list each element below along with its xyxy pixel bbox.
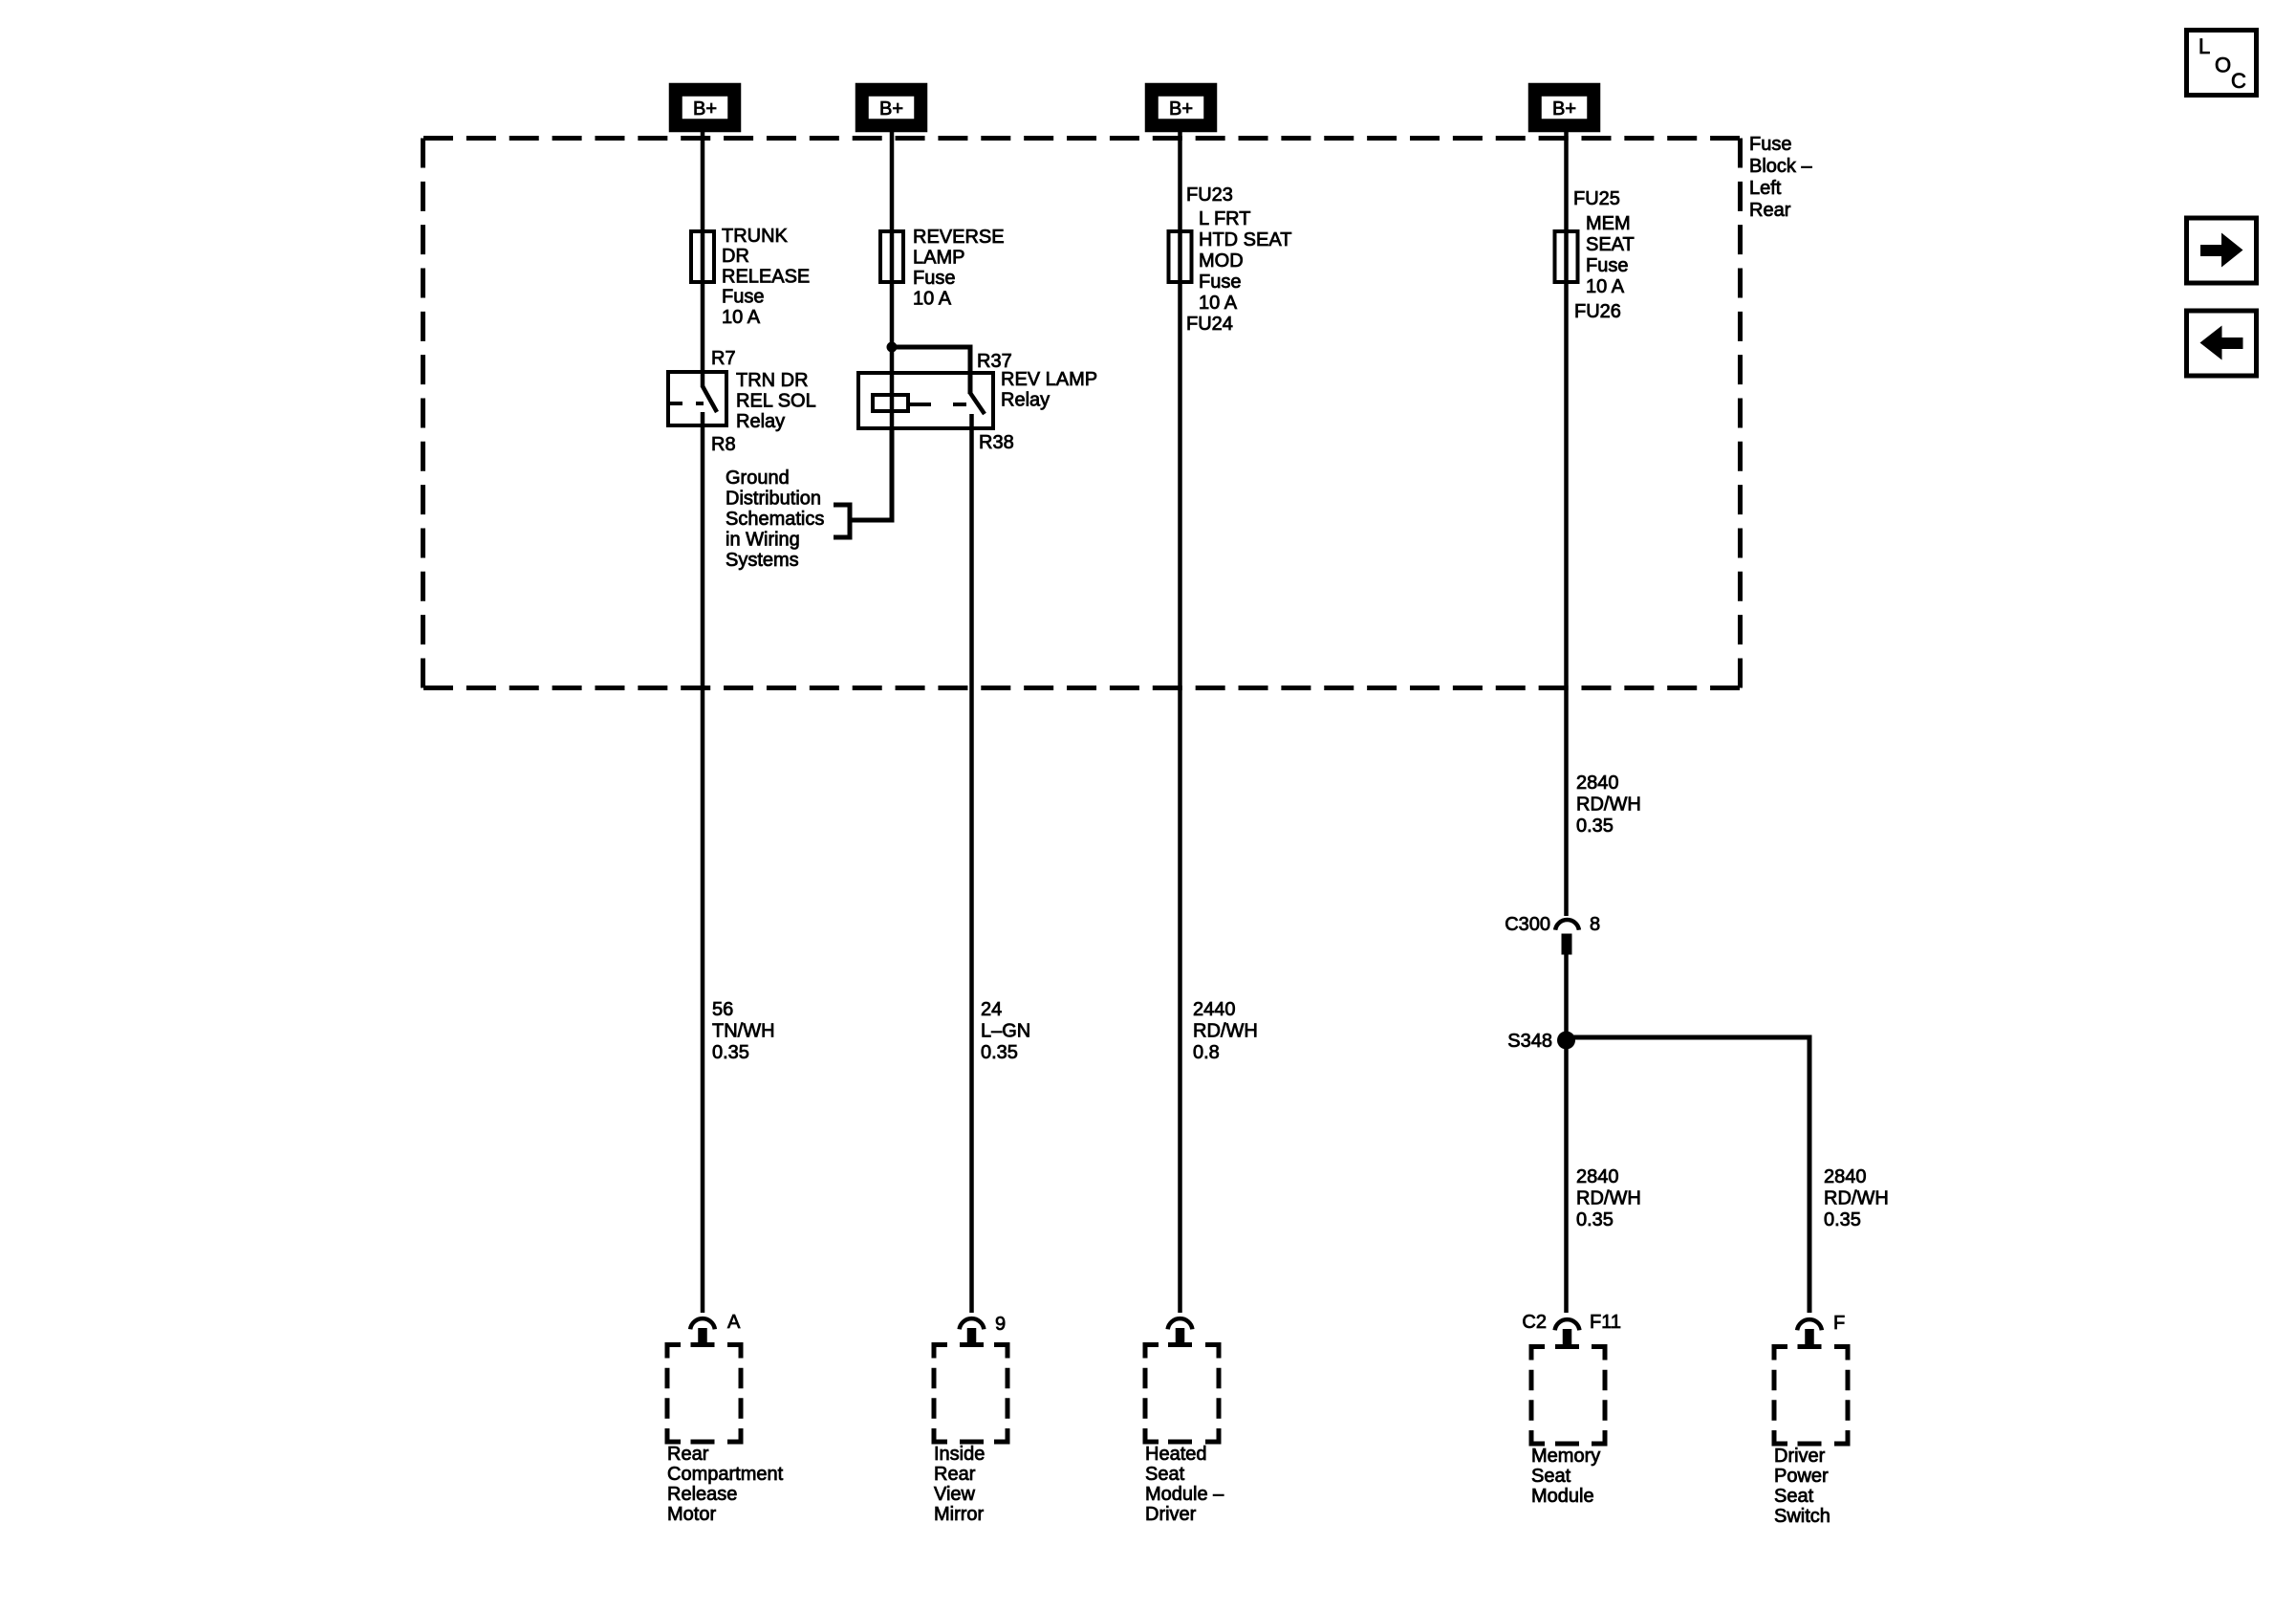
svg-text:Module –: Module – [1145,1484,1224,1505]
memory seat module label [1531,1446,1600,1507]
inside rear view mirror label [934,1444,985,1525]
ground distribution pointer bracket [834,505,850,537]
relay U2 switch blade [970,393,985,414]
svg-text:2840: 2840 [1576,773,1619,794]
fuse L FRT HTD SEAT MOD label [1199,208,1291,314]
connector pin stub 5 [1805,1329,1814,1345]
connector arc C2 F11 (memory seat module) [1555,1319,1580,1330]
svg-text:LAMP: LAMP [913,248,964,269]
heated seat module label [1145,1444,1224,1525]
fuse L FRT HTD SEAT MOD [1169,231,1192,282]
fuse TRUNK DR RELEASE label [722,226,810,328]
wire W2 relay R38 to connector 9 [969,414,974,1313]
svg-text:HTD SEAT: HTD SEAT [1199,229,1291,250]
svg-text:Seat: Seat [1774,1486,1814,1507]
svg-text:Driver: Driver [1145,1504,1197,1525]
component box rear compartment release motor [667,1345,741,1443]
svg-text:Mirror: Mirror [934,1504,985,1525]
svg-text:Seat: Seat [1531,1466,1571,1487]
svg-text:Ground: Ground [726,468,790,489]
svg-text:10 A: 10 A [722,307,761,328]
svg-text:Module: Module [1531,1486,1594,1507]
fuse REVERSE LAMP [880,231,903,282]
svg-text:RD/WH: RD/WH [1576,1188,1641,1209]
svg-text:C: C [2231,69,2246,93]
svg-text:Block –: Block – [1749,156,1812,177]
connector pin stub 4 [1563,1329,1572,1345]
relay U2 linkage dashes [910,403,966,406]
svg-text:0.35: 0.35 [981,1042,1018,1063]
svg-text:Compartment: Compartment [667,1464,784,1485]
wire W1 B+ to relay R7 [701,130,705,387]
svg-text:C300: C300 [1505,914,1550,935]
svg-text:2840: 2840 [1576,1166,1619,1187]
pin label FU25 [1573,188,1620,209]
power feed B+ terminal 4 [1530,85,1598,130]
legend forward arrow box [2187,218,2257,283]
svg-text:FU24: FU24 [1186,314,1233,335]
svg-text:Fuse: Fuse [722,287,764,308]
svg-text:0.8: 0.8 [1193,1042,1220,1063]
connector pin stub 2 [967,1328,977,1343]
component box driver power seat switch [1774,1347,1848,1445]
svg-text:RELEASE: RELEASE [722,266,810,287]
legend LOC box [2187,31,2257,96]
svg-text:F: F [1833,1313,1845,1334]
wire W2 coil to ground-distribution pointer [852,430,892,520]
svg-text:2840: 2840 [1824,1166,1867,1187]
svg-text:Fuse: Fuse [1586,255,1628,276]
svg-text:S348: S348 [1507,1031,1552,1052]
svg-text:B+: B+ [1552,98,1576,120]
fuse block dashed outline [423,139,1741,688]
svg-text:TRUNK: TRUNK [722,226,789,247]
wire W1 circuit label 56 TN/WH 0.35 [712,999,775,1063]
wire W4 C300 to splice S348 [1564,954,1569,1037]
svg-text:0.35: 0.35 [1576,816,1614,837]
svg-text:Rear: Rear [934,1464,976,1485]
svg-text:L–GN: L–GN [981,1021,1030,1042]
svg-text:REL SOL: REL SOL [736,391,816,412]
svg-text:10 A: 10 A [1199,293,1238,314]
wire W5 S348 branch to driver power seat switch [1567,1037,1810,1313]
fuse TRUNK DR RELEASE [691,231,714,282]
wire W4 branch label 2840 RD/WH 0.35 [1576,1166,1641,1230]
wire W2 branch to relay R37 pivot [892,347,970,394]
svg-text:R7: R7 [711,348,736,369]
power feed B+ terminal 3 [1147,85,1215,130]
svg-text:REVERSE: REVERSE [913,227,1005,248]
wire W4 S348 to memory seat module [1564,1037,1569,1313]
svg-text:0.35: 0.35 [1824,1209,1861,1230]
wire W2 B+ to coil through fuse [890,130,895,430]
svg-text:FU26: FU26 [1574,301,1621,322]
svg-text:Relay: Relay [736,411,785,432]
fuse MEM SEAT [1555,231,1578,282]
svg-text:Fuse: Fuse [1199,272,1241,293]
wire W1 relay R8 to connector A [701,412,705,1313]
connector arc (heated seat module) [1168,1318,1193,1329]
svg-text:DR: DR [722,246,749,267]
wire W2 circuit label 24 L-GN 0.35 [981,999,1030,1063]
svg-text:SEAT: SEAT [1586,234,1635,255]
svg-text:in Wiring: in Wiring [726,530,800,551]
svg-text:Relay: Relay [1001,390,1050,411]
pin label R7 [711,348,736,369]
svg-text:A: A [727,1312,741,1333]
component box inside rear view mirror [934,1345,1007,1443]
svg-text:MOD: MOD [1199,250,1244,272]
svg-text:R38: R38 [979,432,1014,453]
svg-text:24: 24 [981,999,1002,1020]
connector C300 pin stub [1562,934,1572,955]
svg-text:L FRT: L FRT [1199,208,1250,229]
svg-text:Switch: Switch [1774,1506,1830,1527]
relay U1 label [736,370,816,432]
wire W3 B+ to heated seat module [1178,130,1182,1313]
svg-text:FU23: FU23 [1186,185,1233,206]
pin label FU26 [1574,301,1621,322]
fuse MEM SEAT label [1586,213,1635,297]
svg-text:F11: F11 [1590,1312,1621,1333]
svg-text:REV LAMP: REV LAMP [1001,369,1097,390]
svg-text:Inside: Inside [934,1444,985,1465]
svg-text:Power: Power [1774,1466,1829,1487]
wire W5 branch label 2840 RD/WH 0.35 [1824,1166,1889,1230]
svg-text:8: 8 [1590,914,1600,935]
connector arc pin F (driver power seat switch) [1797,1319,1822,1330]
svg-text:B+: B+ [1169,98,1193,120]
svg-text:0.35: 0.35 [1576,1209,1614,1230]
svg-text:TRN DR: TRN DR [736,370,809,391]
wire W4 B+ to connector C300 [1564,130,1569,916]
svg-text:Rear: Rear [667,1444,709,1465]
connector arc pin 9 (inside rear view mirror) [960,1318,985,1329]
svg-text:Release: Release [667,1484,737,1505]
pin label R37 [977,351,1012,372]
svg-text:View: View [934,1484,976,1505]
svg-text:RD/WH: RD/WH [1193,1021,1258,1042]
svg-text:Left: Left [1749,178,1782,199]
pin label FU24 [1186,314,1233,335]
power feed B+ terminal 1 [671,85,739,130]
svg-text:B+: B+ [693,98,717,120]
splice S348 node [1557,1032,1575,1050]
svg-text:O: O [2215,54,2231,77]
svg-text:9: 9 [995,1314,1006,1335]
connector pin stub 3 [1176,1328,1185,1343]
svg-text:Fuse: Fuse [1749,134,1791,155]
svg-text:Fuse: Fuse [913,268,955,289]
relay U1 TRN DR REL SOL box [668,372,726,425]
connector arc pin A (rear compartment release motor) [690,1318,715,1329]
svg-text:FU25: FU25 [1573,188,1620,209]
svg-text:B+: B+ [879,98,903,120]
ground distribution note [726,468,824,571]
svg-text:10 A: 10 A [1586,276,1625,297]
wire W4 circuit label 2840 RD/WH 0.35 [1576,773,1641,837]
svg-text:Systems: Systems [726,550,799,571]
svg-text:Memory: Memory [1531,1446,1600,1467]
wire W3 circuit label 2440 RD/WH 0.8 [1193,999,1258,1063]
svg-text:2440: 2440 [1193,999,1236,1020]
svg-text:Schematics: Schematics [726,509,824,530]
relay U2 coil [873,395,908,411]
svg-text:10 A: 10 A [913,289,952,310]
svg-text:L: L [2199,34,2210,58]
relay U2 label [1001,369,1097,411]
connector pin stub 1 [698,1328,707,1343]
svg-text:0.35: 0.35 [712,1042,749,1063]
connector C300 arc [1555,920,1579,930]
svg-text:RD/WH: RD/WH [1576,795,1641,816]
pin label R8 [711,434,736,455]
relay U1 linkage dashes [668,402,704,405]
svg-text:Driver: Driver [1774,1446,1826,1467]
svg-text:R8: R8 [711,434,736,455]
component box heated seat module driver [1145,1345,1219,1443]
svg-text:TN/WH: TN/WH [712,1021,775,1042]
pin label FU23 [1186,185,1233,206]
fuse REVERSE LAMP label [913,227,1005,310]
svg-text:C2: C2 [1522,1312,1547,1333]
svg-text:RD/WH: RD/WH [1824,1188,1889,1209]
svg-text:Heated: Heated [1145,1444,1207,1465]
junction node on wire W2 [887,342,898,353]
svg-text:Motor: Motor [667,1504,716,1525]
legend backward arrow box [2187,311,2257,376]
rear compartment release motor label [667,1444,784,1525]
svg-text:Seat: Seat [1145,1464,1185,1485]
svg-text:MEM: MEM [1586,213,1631,234]
driver power seat switch label [1774,1446,1830,1527]
fuse block label [1749,134,1812,221]
relay U1 switch blade [703,386,717,412]
svg-text:Distribution: Distribution [726,489,821,510]
pin label R38 [979,432,1014,453]
power feed B+ terminal 2 [857,85,925,130]
relay U2 REV LAMP box [858,373,993,428]
component box memory seat module [1531,1347,1605,1445]
svg-text:56: 56 [712,999,733,1020]
svg-text:Rear: Rear [1749,200,1791,221]
